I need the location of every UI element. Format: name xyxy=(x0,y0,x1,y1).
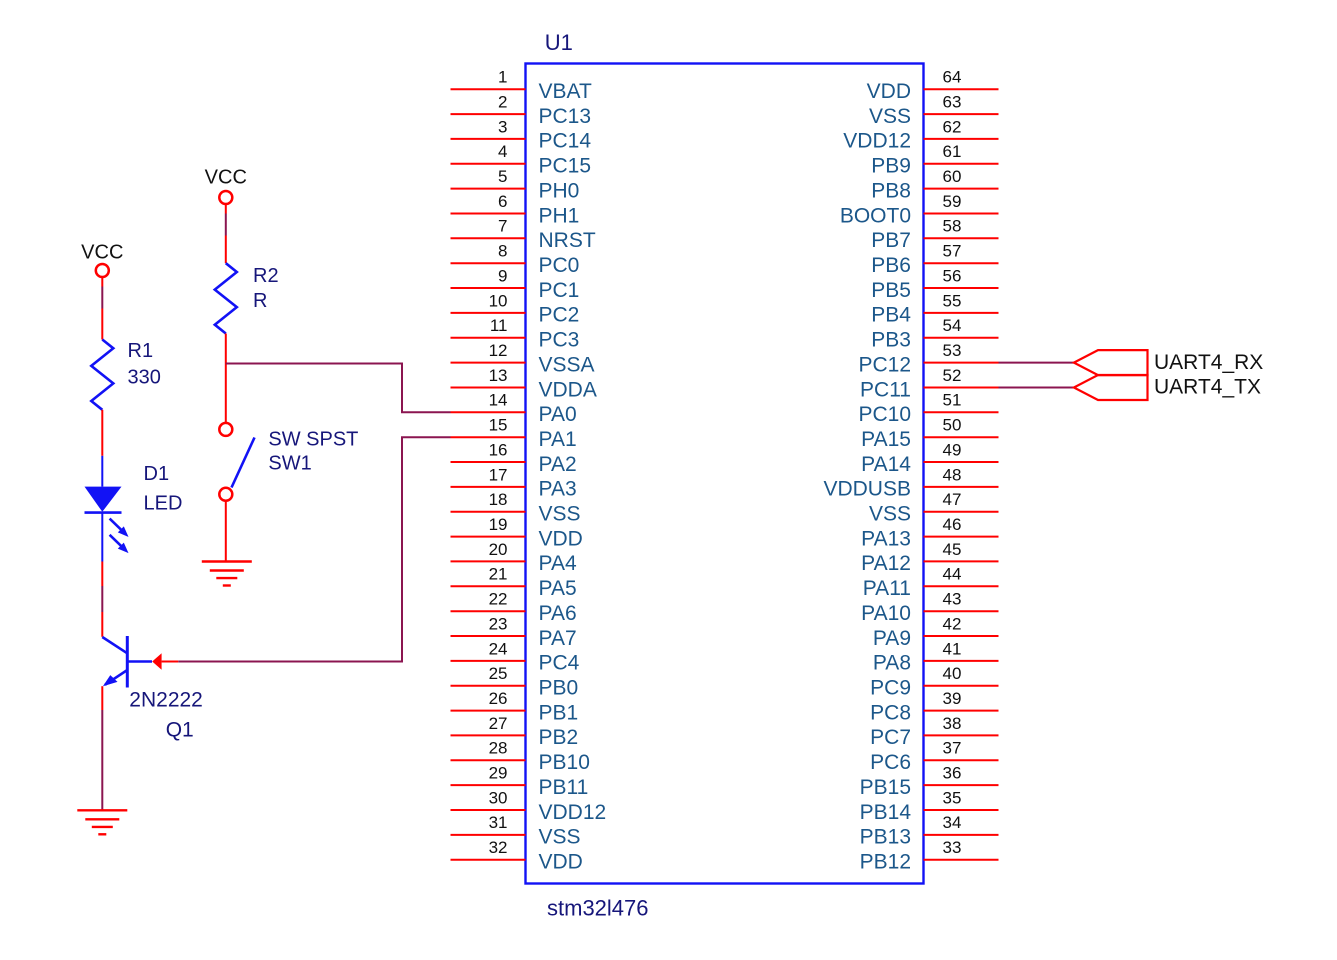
svg-text:14: 14 xyxy=(489,391,508,410)
svg-text:PA5: PA5 xyxy=(539,577,577,600)
svg-text:PC4: PC4 xyxy=(539,652,580,675)
svg-text:PC10: PC10 xyxy=(858,403,911,426)
svg-text:24: 24 xyxy=(489,639,508,658)
svg-text:VDD: VDD xyxy=(539,851,583,874)
svg-text:SW SPST: SW SPST xyxy=(268,429,358,451)
svg-text:PA7: PA7 xyxy=(539,627,577,650)
svg-text:19: 19 xyxy=(489,515,508,534)
svg-text:PB10: PB10 xyxy=(539,751,590,774)
svg-text:32: 32 xyxy=(489,838,508,857)
svg-text:1: 1 xyxy=(498,68,507,87)
svg-text:15: 15 xyxy=(489,416,508,435)
svg-text:VDDA: VDDA xyxy=(539,378,597,401)
svg-text:PH1: PH1 xyxy=(539,204,580,227)
svg-text:PA15: PA15 xyxy=(861,428,911,451)
svg-text:VDD12: VDD12 xyxy=(843,130,911,153)
svg-text:VDD: VDD xyxy=(539,527,583,550)
svg-text:10: 10 xyxy=(489,291,508,310)
svg-text:PB2: PB2 xyxy=(539,726,579,749)
svg-text:50: 50 xyxy=(943,416,962,435)
svg-text:25: 25 xyxy=(489,664,508,683)
svg-text:PA2: PA2 xyxy=(539,453,577,476)
svg-text:U1: U1 xyxy=(545,30,573,55)
svg-text:PC15: PC15 xyxy=(539,155,592,178)
svg-text:45: 45 xyxy=(943,540,962,559)
svg-text:48: 48 xyxy=(943,465,962,484)
svg-text:PB5: PB5 xyxy=(871,279,911,302)
svg-text:22: 22 xyxy=(489,590,508,609)
svg-text:38: 38 xyxy=(943,714,962,733)
svg-text:23: 23 xyxy=(489,614,508,633)
svg-text:60: 60 xyxy=(943,167,962,186)
svg-text:PA13: PA13 xyxy=(861,527,911,550)
svg-text:33: 33 xyxy=(943,838,962,857)
svg-text:34: 34 xyxy=(943,813,962,832)
svg-text:31: 31 xyxy=(489,813,508,832)
svg-text:PC9: PC9 xyxy=(870,677,911,700)
svg-text:37: 37 xyxy=(943,739,962,758)
svg-text:17: 17 xyxy=(489,465,508,484)
svg-text:R2: R2 xyxy=(253,265,279,287)
svg-text:UART4_TX: UART4_TX xyxy=(1154,376,1261,399)
svg-text:PB6: PB6 xyxy=(871,254,911,277)
svg-text:PA0: PA0 xyxy=(539,403,577,426)
svg-text:36: 36 xyxy=(943,764,962,783)
svg-text:PA3: PA3 xyxy=(539,478,577,501)
svg-text:46: 46 xyxy=(943,515,962,534)
svg-text:PC2: PC2 xyxy=(539,304,580,327)
svg-text:2: 2 xyxy=(498,93,507,112)
svg-text:PC0: PC0 xyxy=(539,254,580,277)
svg-text:63: 63 xyxy=(943,93,962,112)
svg-text:PA14: PA14 xyxy=(861,453,911,476)
svg-text:PB15: PB15 xyxy=(860,776,911,799)
svg-text:4: 4 xyxy=(498,142,507,161)
svg-text:330: 330 xyxy=(128,367,161,389)
svg-text:53: 53 xyxy=(943,341,962,360)
svg-text:VCC: VCC xyxy=(81,242,123,264)
svg-text:11: 11 xyxy=(490,316,508,335)
svg-text:stm32l476: stm32l476 xyxy=(547,896,649,921)
svg-text:29: 29 xyxy=(489,764,508,783)
svg-text:54: 54 xyxy=(943,316,962,335)
svg-text:9: 9 xyxy=(498,266,507,285)
svg-text:PB12: PB12 xyxy=(860,851,911,874)
svg-text:BOOT0: BOOT0 xyxy=(840,204,911,227)
svg-text:62: 62 xyxy=(943,117,962,136)
svg-text:PH0: PH0 xyxy=(539,179,580,202)
svg-text:NRST: NRST xyxy=(539,229,596,252)
svg-text:VSS: VSS xyxy=(869,503,911,526)
svg-text:2N2222: 2N2222 xyxy=(129,689,203,712)
svg-text:21: 21 xyxy=(489,565,508,584)
svg-text:LED: LED xyxy=(144,492,183,514)
svg-text:PC8: PC8 xyxy=(870,701,911,724)
svg-text:PA6: PA6 xyxy=(539,602,577,625)
svg-text:PC11: PC11 xyxy=(860,378,911,401)
svg-text:28: 28 xyxy=(489,739,508,758)
svg-text:PB8: PB8 xyxy=(871,179,911,202)
svg-text:57: 57 xyxy=(943,242,962,261)
svg-text:41: 41 xyxy=(943,639,962,658)
svg-text:PA4: PA4 xyxy=(539,552,577,575)
svg-text:VDD12: VDD12 xyxy=(539,801,607,824)
svg-text:49: 49 xyxy=(943,440,962,459)
svg-text:PA8: PA8 xyxy=(873,652,911,675)
svg-text:PA9: PA9 xyxy=(873,627,911,650)
svg-text:PB3: PB3 xyxy=(871,329,911,352)
svg-text:PC6: PC6 xyxy=(870,751,911,774)
svg-text:PA1: PA1 xyxy=(539,428,577,451)
svg-text:PA11: PA11 xyxy=(863,577,911,600)
svg-text:VDDUSB: VDDUSB xyxy=(823,478,911,501)
svg-text:VCC: VCC xyxy=(205,166,247,188)
svg-text:5: 5 xyxy=(498,167,507,186)
svg-text:42: 42 xyxy=(943,614,962,633)
svg-text:3: 3 xyxy=(498,117,507,136)
svg-text:PC14: PC14 xyxy=(539,130,592,153)
svg-text:7: 7 xyxy=(498,217,507,236)
svg-text:PC13: PC13 xyxy=(539,105,592,128)
svg-text:PB7: PB7 xyxy=(871,229,911,252)
svg-text:35: 35 xyxy=(943,788,962,807)
svg-text:56: 56 xyxy=(943,266,962,285)
svg-text:30: 30 xyxy=(489,788,508,807)
svg-text:26: 26 xyxy=(489,689,508,708)
svg-text:52: 52 xyxy=(943,366,962,385)
svg-text:PC7: PC7 xyxy=(870,726,911,749)
svg-text:SW1: SW1 xyxy=(268,453,311,475)
svg-text:D1: D1 xyxy=(144,463,170,485)
svg-text:44: 44 xyxy=(943,565,962,584)
svg-text:20: 20 xyxy=(489,540,508,559)
svg-text:6: 6 xyxy=(498,192,507,211)
svg-text:R: R xyxy=(253,290,267,312)
svg-text:18: 18 xyxy=(489,490,508,509)
svg-text:13: 13 xyxy=(489,366,508,385)
svg-text:43: 43 xyxy=(943,590,962,609)
svg-text:VBAT: VBAT xyxy=(539,80,592,103)
svg-text:R1: R1 xyxy=(128,340,154,362)
svg-text:PB14: PB14 xyxy=(860,801,912,824)
svg-text:51: 51 xyxy=(943,391,962,410)
svg-text:PC12: PC12 xyxy=(858,353,911,376)
svg-text:16: 16 xyxy=(489,440,508,459)
svg-text:27: 27 xyxy=(489,714,508,733)
svg-text:58: 58 xyxy=(943,217,962,236)
svg-text:PB13: PB13 xyxy=(860,826,911,849)
svg-text:PB11: PB11 xyxy=(539,776,589,799)
svg-text:61: 61 xyxy=(943,142,962,161)
svg-text:39: 39 xyxy=(943,689,962,708)
svg-text:PB9: PB9 xyxy=(871,155,911,178)
svg-text:PB4: PB4 xyxy=(871,304,911,327)
svg-text:VDD: VDD xyxy=(867,80,911,103)
svg-text:VSS: VSS xyxy=(869,105,911,128)
svg-text:Q1: Q1 xyxy=(166,719,194,742)
svg-text:VSS: VSS xyxy=(539,826,581,849)
svg-text:UART4_RX: UART4_RX xyxy=(1154,351,1263,374)
svg-text:8: 8 xyxy=(498,242,507,261)
svg-text:59: 59 xyxy=(943,192,962,211)
svg-text:12: 12 xyxy=(489,341,508,360)
svg-text:PB0: PB0 xyxy=(539,677,579,700)
svg-text:55: 55 xyxy=(943,291,962,310)
svg-text:VSSA: VSSA xyxy=(539,353,595,376)
svg-text:64: 64 xyxy=(943,68,962,87)
svg-text:40: 40 xyxy=(943,664,962,683)
svg-text:PA12: PA12 xyxy=(861,552,911,575)
svg-text:PA10: PA10 xyxy=(861,602,911,625)
svg-text:PC3: PC3 xyxy=(539,329,580,352)
svg-text:VSS: VSS xyxy=(539,503,581,526)
svg-text:PC1: PC1 xyxy=(539,279,580,302)
svg-text:47: 47 xyxy=(943,490,962,509)
svg-text:PB1: PB1 xyxy=(539,701,579,724)
